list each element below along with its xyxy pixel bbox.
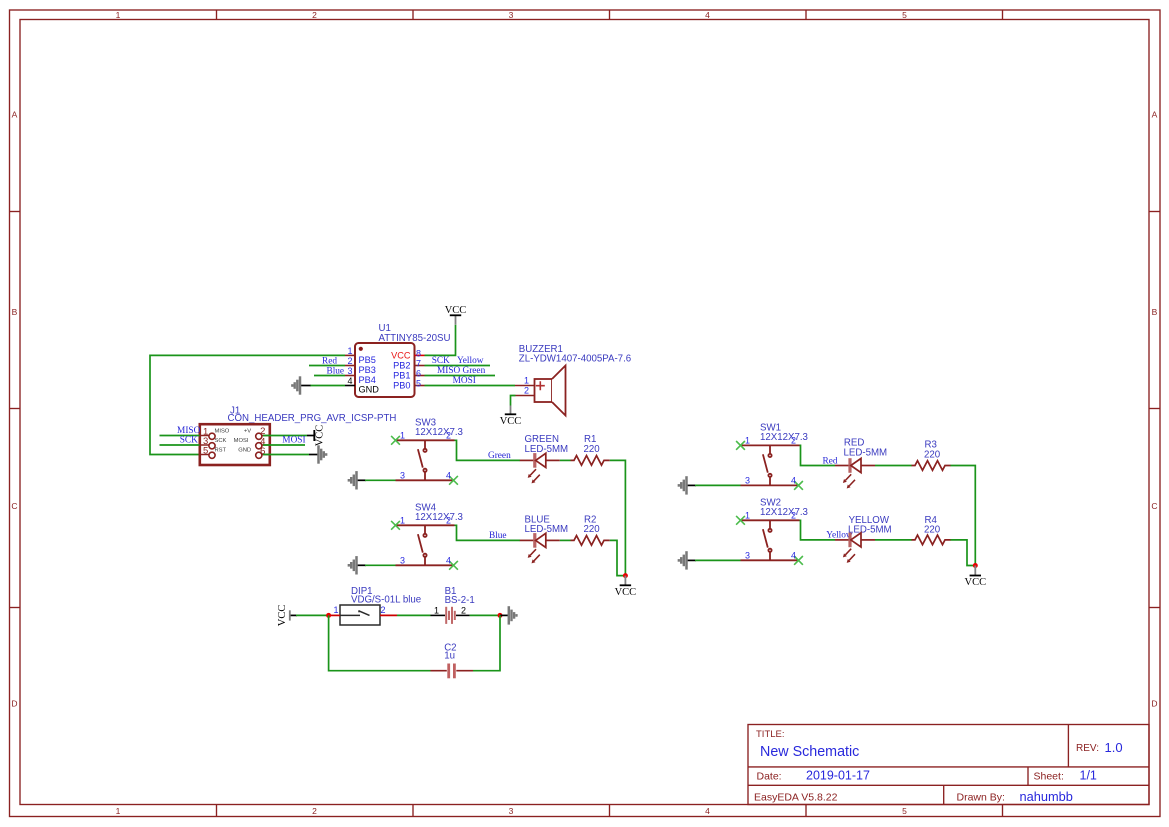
svg-text:LED-5MM: LED-5MM	[844, 448, 888, 459]
SW2 no-connect X pin1	[736, 516, 745, 525]
battery B1 symbol	[431, 607, 470, 624]
svg-text:PB2: PB2	[393, 361, 410, 371]
SW4 no-connect X pin1	[391, 521, 400, 530]
svg-text:Blue: Blue	[327, 366, 345, 376]
svg-text:MISO: MISO	[437, 366, 461, 376]
svg-text:3: 3	[745, 475, 750, 485]
svg-text:4: 4	[705, 10, 710, 20]
svg-text:A: A	[12, 110, 18, 120]
wire buzzer pin2 to VCC flag	[511, 396, 516, 406]
svg-text:MISO: MISO	[177, 426, 201, 436]
switch SW3 body	[396, 440, 455, 480]
wire U1 pin5 to buzzer pin1 (MOSI net)	[425, 385, 516, 387]
svg-text:3: 3	[509, 10, 514, 20]
ground right of B1	[500, 606, 517, 624]
svg-text:Drawn By:: Drawn By:	[957, 792, 1005, 804]
wire BLUE LED to R2	[560, 539, 571, 541]
U1 pin1 marker dot	[359, 347, 363, 351]
VCC flag right of J1 (rotated)	[307, 425, 326, 447]
svg-text:2: 2	[461, 605, 466, 615]
wire SW2 ground to pin3	[695, 559, 741, 561]
svg-text:VCC: VCC	[500, 416, 522, 427]
svg-text:VCC: VCC	[965, 577, 987, 588]
svg-text:2: 2	[347, 356, 352, 366]
svg-text:VCC: VCC	[391, 351, 411, 361]
SW2 no-connect X pin4	[794, 556, 803, 565]
svg-text:1: 1	[400, 430, 405, 440]
svg-text:VCC: VCC	[277, 605, 288, 627]
svg-text:12X12X7.3: 12X12X7.3	[760, 507, 808, 518]
svg-text:1u: 1u	[444, 651, 455, 662]
wire U1 pin8 to VCC	[425, 325, 456, 356]
svg-text:MISO: MISO	[215, 428, 230, 434]
svg-text:Blue: Blue	[489, 531, 507, 541]
svg-text:1: 1	[400, 515, 405, 525]
VCC flag below left rail	[615, 576, 637, 598]
wire R4 to VCC junction right	[951, 540, 976, 566]
svg-text:A: A	[1152, 110, 1158, 120]
junction dot B1 ground	[498, 613, 503, 618]
buzzer plus sign	[536, 381, 545, 390]
J1 pin 4	[256, 443, 270, 449]
buzzer pin 1 stub	[515, 385, 535, 387]
ground left of SW1	[679, 476, 696, 494]
svg-text:TITLE:: TITLE:	[756, 729, 785, 740]
U1 pin 1 stub	[345, 354, 355, 356]
resistor R2 symbol	[571, 536, 610, 546]
svg-text:2: 2	[446, 515, 451, 525]
svg-text:D: D	[11, 699, 17, 709]
svg-text:Green: Green	[463, 366, 486, 376]
ground left of SW3	[349, 471, 366, 489]
wire junction DIP1 down to C2	[329, 615, 431, 670]
svg-text:7: 7	[416, 358, 421, 368]
wire YELLOW LED to R4	[875, 539, 912, 541]
svg-text:2: 2	[791, 510, 796, 520]
svg-text:5: 5	[902, 10, 907, 20]
resistor R4 symbol	[912, 535, 951, 545]
svg-text:VDG/S-01L blue: VDG/S-01L blue	[351, 594, 421, 605]
SW4 no-connect X pin4	[449, 561, 458, 570]
svg-text:C: C	[1151, 501, 1157, 511]
svg-text:D: D	[1151, 699, 1157, 709]
LED RED symbol	[835, 458, 875, 488]
svg-text:3: 3	[745, 550, 750, 560]
J1 pin 3	[200, 443, 215, 449]
LED GREEN symbol	[520, 453, 560, 483]
ground left of SW2	[679, 551, 696, 569]
U1 pin 6 stub	[415, 375, 425, 377]
svg-text:1: 1	[745, 510, 750, 520]
svg-text:220: 220	[584, 524, 601, 535]
svg-text:ZL-YDW1407-4005PA-7.6: ZL-YDW1407-4005PA-7.6	[519, 354, 631, 365]
DIP1 pin 1 stub	[329, 614, 340, 616]
wire RED LED to R3	[875, 465, 912, 467]
svg-text:1: 1	[333, 605, 338, 615]
connector J1 body	[200, 424, 270, 465]
svg-text:2: 2	[312, 806, 317, 816]
svg-text:Date:: Date:	[757, 771, 782, 783]
wire SW4 pin2 to BLUE LED	[455, 525, 521, 540]
resistor R3 symbol	[912, 461, 951, 471]
wire SW1 pin2 to RED LED	[800, 445, 836, 465]
wire SW3 ground to pin3	[365, 479, 396, 481]
svg-text:4: 4	[446, 555, 451, 565]
svg-text:LED-5MM: LED-5MM	[848, 525, 892, 536]
svg-text:5: 5	[203, 446, 208, 457]
svg-text:MOSI: MOSI	[282, 436, 305, 446]
wire U1 pin2 Red net stub	[309, 365, 345, 367]
IC U1 body	[355, 343, 415, 397]
VCC flag left of DIP1 (rotated)	[277, 605, 297, 627]
svg-text:2: 2	[524, 386, 529, 396]
svg-text:1: 1	[116, 806, 121, 816]
svg-text:8: 8	[416, 348, 421, 358]
wire R1 to VCC rail	[610, 460, 626, 575]
svg-text:+V: +V	[244, 428, 251, 434]
svg-text:nahumbb: nahumbb	[1020, 789, 1073, 804]
svg-text:1.0: 1.0	[1105, 740, 1123, 755]
svg-text:4: 4	[791, 550, 796, 560]
wire DIP1 pin2 to B1 pin1	[397, 614, 431, 616]
svg-text:5: 5	[902, 806, 907, 816]
wire B1 pin2 to ground junction	[470, 614, 500, 616]
U1 pin 7 stub	[415, 365, 425, 367]
svg-text:B: B	[1152, 307, 1158, 317]
wire J1 pin4 MOSI stub	[263, 444, 305, 446]
svg-text:GND: GND	[359, 385, 380, 395]
wire R3 to VCC rail right	[951, 466, 976, 566]
wire SW2 pin2 to YELLOW LED	[800, 520, 836, 540]
svg-text:1: 1	[745, 435, 750, 445]
svg-text:1/1: 1/1	[1080, 769, 1097, 783]
svg-text:2: 2	[312, 10, 317, 20]
J1 pin 1	[200, 433, 215, 439]
wire SW1 ground to pin3	[695, 484, 741, 486]
VCC flag below right rail	[965, 566, 987, 589]
svg-text:PB0: PB0	[393, 381, 410, 391]
wire U1 pin1 to J1 pin5 (RST net)	[150, 355, 345, 454]
svg-text:2: 2	[446, 430, 451, 440]
svg-text:SCK: SCK	[432, 356, 450, 366]
svg-text:Sheet:: Sheet:	[1034, 771, 1064, 783]
DIP1 pin 2 stub	[380, 614, 397, 616]
SW3 no-connect X pin4	[449, 476, 458, 485]
LED YELLOW symbol	[835, 533, 875, 563]
switch SW2 body	[741, 520, 800, 560]
svg-text:5: 5	[416, 378, 421, 388]
wire J1 pin3 SCK stub	[160, 444, 200, 446]
junction dot DIP1 pin1	[326, 613, 331, 618]
junction dot left VCC	[623, 573, 628, 578]
svg-text:6: 6	[416, 368, 421, 378]
svg-text:3: 3	[347, 366, 352, 376]
svg-text:220: 220	[924, 449, 941, 460]
svg-text:VCC: VCC	[615, 587, 637, 598]
svg-text:1: 1	[524, 376, 529, 386]
svg-text:220: 220	[924, 525, 941, 536]
svg-text:GND: GND	[238, 447, 251, 453]
svg-text:3: 3	[400, 555, 405, 565]
U1 pin 3 stub	[345, 375, 355, 377]
wire U1 pin3 Blue net stub	[314, 375, 345, 377]
svg-text:Yellow: Yellow	[457, 356, 484, 366]
svg-text:CON_HEADER_PRG_AVR_ICSP-PTH: CON_HEADER_PRG_AVR_ICSP-PTH	[228, 413, 397, 424]
ground left of SW4	[349, 556, 366, 574]
capacitor C2 symbol	[431, 664, 474, 679]
svg-text:VCC: VCC	[315, 425, 326, 447]
svg-text:PB3: PB3	[359, 365, 376, 375]
wire U1 pin4 to ground	[310, 385, 345, 387]
SW1 no-connect X pin4	[794, 481, 803, 490]
switch SW4 body	[396, 525, 455, 565]
svg-text:MOSI: MOSI	[453, 376, 476, 386]
wire J1 pin1 MISO stub	[160, 435, 200, 437]
wire J1 pin6 to ground	[263, 454, 309, 456]
wire VCC to DIP1 pin1 junction	[296, 614, 329, 616]
buzzer BUZZER1 body	[535, 366, 566, 416]
wire C2 to B1 junction	[473, 615, 500, 670]
junction dot right VCC	[973, 563, 978, 568]
resistor R1 symbol	[571, 456, 610, 466]
svg-text:4: 4	[446, 470, 451, 480]
svg-text:4: 4	[347, 376, 352, 386]
ground at U1 pin4	[292, 376, 310, 394]
wire J1 pin2 to VCC flag	[263, 435, 307, 437]
svg-text:4: 4	[705, 806, 710, 816]
svg-text:MOSI: MOSI	[234, 438, 249, 444]
VCC flag below buzzer	[500, 406, 522, 427]
J1 pin 5	[200, 452, 215, 458]
svg-text:4: 4	[791, 475, 796, 485]
svg-text:SCK: SCK	[215, 438, 227, 444]
VCC flag above U1	[445, 305, 467, 325]
U1 pin 8 stub (VCC, red)	[415, 354, 425, 356]
svg-text:3: 3	[509, 806, 514, 816]
U1 pin 5 stub	[415, 385, 425, 387]
svg-text:VCC: VCC	[445, 305, 467, 316]
svg-text:PB1: PB1	[393, 371, 410, 381]
svg-text:1: 1	[347, 346, 352, 356]
svg-text:3: 3	[400, 470, 405, 480]
J1 pin 6	[256, 452, 270, 458]
wire SW3 pin2 to GREEN LED	[455, 440, 521, 460]
svg-text:PB4: PB4	[359, 375, 376, 385]
switch DIP1 body	[340, 605, 380, 625]
wire U1 pin6 (MISO/Green net)	[425, 375, 496, 377]
svg-text:Red: Red	[322, 356, 337, 366]
svg-text:12X12X7.3: 12X12X7.3	[415, 427, 463, 438]
SW1 no-connect X pin1	[736, 441, 745, 450]
wire SW4 ground to pin3	[365, 564, 396, 566]
svg-text:SCK: SCK	[180, 436, 198, 446]
U1 pin 4 stub (GND, black)	[345, 385, 355, 387]
svg-text:EasyEDA V5.8.22: EasyEDA V5.8.22	[754, 792, 838, 804]
svg-text:2: 2	[380, 605, 385, 615]
svg-text:2019-01-17: 2019-01-17	[806, 769, 870, 783]
switch SW1 body	[741, 445, 800, 485]
svg-text:1: 1	[116, 10, 121, 20]
SW3 no-connect X pin1	[391, 436, 400, 445]
svg-text:220: 220	[584, 444, 601, 455]
svg-text:B: B	[12, 307, 18, 317]
svg-text:New Schematic: New Schematic	[760, 744, 859, 760]
svg-text:2: 2	[791, 435, 796, 445]
title block box	[748, 725, 1149, 805]
svg-text:12X12X7.3: 12X12X7.3	[415, 512, 463, 523]
svg-text:1: 1	[434, 605, 439, 615]
svg-text:C: C	[11, 501, 17, 511]
J1 pin 2	[256, 433, 270, 439]
ground right of J1	[309, 445, 326, 463]
U1 pin 2 stub	[345, 365, 355, 367]
wire GREEN LED to R1	[560, 459, 571, 461]
svg-text:PB5: PB5	[359, 355, 376, 365]
wire U1 pin7 (SCK/Yellow net)	[425, 365, 491, 367]
svg-text:Green: Green	[488, 451, 511, 461]
buzzer pin 2 stub	[516, 395, 535, 397]
LED BLUE symbol	[520, 533, 560, 563]
svg-text:REV:: REV:	[1076, 743, 1099, 754]
svg-text:BS-2-1: BS-2-1	[445, 595, 475, 606]
svg-text:6: 6	[260, 446, 265, 457]
svg-text:12X12X7.3: 12X12X7.3	[760, 432, 808, 443]
wire R2 to VCC junction	[610, 540, 626, 575]
svg-text:RST: RST	[215, 447, 227, 453]
